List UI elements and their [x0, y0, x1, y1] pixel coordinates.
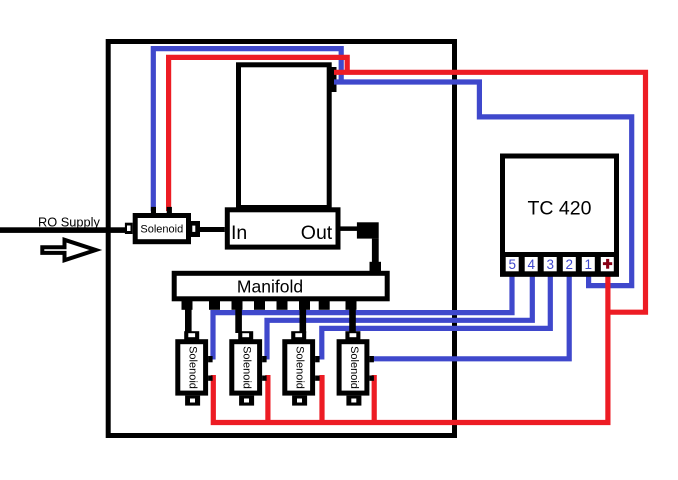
blue wire: solenoid V4 to terminal 2 [371, 271, 569, 359]
blue wire: inlet solenoid to junction [153, 49, 341, 211]
terminal 3 [544, 257, 557, 272]
red wire: float switch to TC420 plus terminal [334, 72, 646, 312]
svg-text:Solenoid: Solenoid [187, 346, 199, 389]
enclosure box [108, 42, 454, 436]
svg-text:Manifold: Manifold [237, 277, 303, 297]
svg-text:1: 1 [585, 257, 593, 272]
in/out unit [227, 210, 338, 247]
blue wire: solenoid V2 to terminal 4 [267, 271, 532, 360]
red wire riser solenoid V2 [265, 375, 270, 423]
svg-text:Solenoid: Solenoid [294, 346, 306, 389]
elbow fitting [357, 222, 381, 274]
pipe manifold to V4 [349, 309, 356, 333]
svg-text:3: 3 [546, 257, 554, 272]
TC 420 controller [500, 156, 619, 277]
reservoir [239, 65, 330, 208]
svg-text:Out: Out [301, 222, 333, 244]
red wire riser solenoid V4 [372, 375, 377, 423]
svg-text:TC 420: TC 420 [528, 198, 592, 220]
pipe: inlet solenoid to in/out unit [200, 227, 225, 232]
flow arrow [42, 240, 96, 260]
pipe manifold to V2 [235, 309, 242, 333]
pipe manifold to V1 [185, 309, 192, 333]
svg-text:RO Supply: RO Supply [38, 215, 100, 230]
svg-text:In: In [231, 222, 247, 244]
terminal 2 [563, 257, 576, 272]
red wire: inlet solenoid to junction [169, 57, 348, 211]
blue wire: solenoid V3 to terminal 3 [322, 271, 551, 360]
solenoid V3 [285, 331, 320, 405]
svg-text:Solenoid: Solenoid [140, 223, 183, 235]
svg-text:Solenoid: Solenoid [241, 346, 253, 389]
pipe: out port to elbow [341, 226, 358, 231]
svg-text:Solenoid: Solenoid [348, 346, 360, 389]
terminal plus [601, 257, 614, 271]
inlet solenoid S1 [125, 207, 200, 242]
svg-text:2: 2 [566, 257, 574, 272]
solenoid V2 [232, 331, 267, 405]
svg-text:5: 5 [508, 257, 516, 272]
svg-text:4: 4 [527, 257, 535, 272]
terminal 4 [525, 257, 538, 272]
red wire: plus terminal down to solenoid bus [213, 271, 608, 423]
terminal 5 [506, 257, 519, 272]
solenoid V1 [178, 331, 213, 405]
red wire riser solenoid V3 [319, 375, 324, 423]
manifold [174, 273, 387, 299]
solenoid V4 [339, 331, 374, 405]
blue wire: float switch to TC420 terminal 1 [334, 82, 632, 286]
float switch connector on reservoir [331, 67, 337, 92]
pipe manifold to V3 [300, 309, 307, 333]
terminal 1 [582, 257, 595, 272]
RO supply line [0, 227, 125, 233]
blue wire: solenoid V1 to terminal 5 [213, 271, 512, 360]
manifold ports [182, 301, 357, 310]
